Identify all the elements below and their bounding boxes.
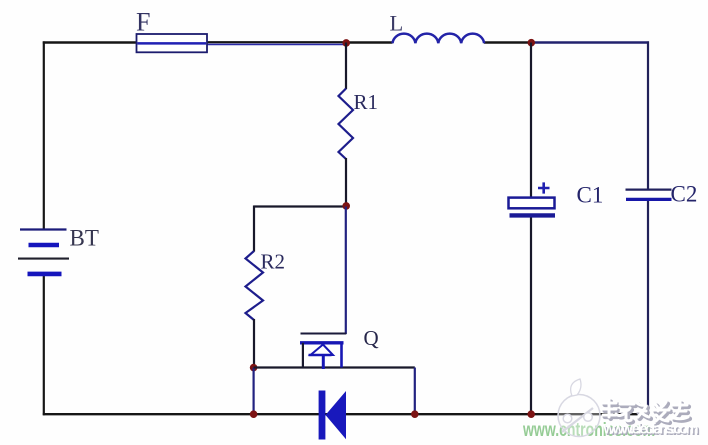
battery BT plates <box>18 230 69 274</box>
wire source branch down (navy) <box>414 368 416 415</box>
wire top-left horizontal (battery+ to fuse) <box>43 41 137 43</box>
capacitor C1 top plate <box>509 198 555 209</box>
wire inductor to node B <box>484 41 532 43</box>
node A top (R1 branch) <box>342 39 350 47</box>
svg-text:www.elecfans.com: www.elecfans.com <box>603 422 699 438</box>
node B top (C1 branch) <box>528 39 536 47</box>
watermark <box>522 379 700 441</box>
wire C1 lower lead <box>530 218 532 415</box>
capacitor C1 bottom plate <box>510 213 556 217</box>
wire right side lower (C2 to bottom) <box>647 201 649 415</box>
fuse F body <box>137 34 208 52</box>
wire R1 bottom lead <box>345 158 347 207</box>
svg-text:L: L <box>390 11 404 36</box>
svg-text:C2: C2 <box>671 182 698 207</box>
capacitor C2 bottom plate <box>626 198 672 201</box>
diode D1 triangle <box>326 391 347 439</box>
wire R2 bottom lead <box>253 319 255 368</box>
capacitor C1 plus sign <box>538 182 550 193</box>
node F2 (source to bottom wire) <box>411 410 419 418</box>
wire node D down to bottom wire (navy) <box>253 368 255 415</box>
inductor L <box>393 34 485 44</box>
node G (C1 to bottom wire) <box>527 410 535 418</box>
svg-text:BT: BT <box>70 226 99 251</box>
capacitor C2 top plate <box>626 188 672 190</box>
wire drain (node C down to Q, navy) <box>345 207 347 335</box>
node C (R1/R2/gate-drain divider) <box>342 202 350 210</box>
wire bottom horizontal <box>43 413 649 415</box>
wire R1 top lead <box>345 43 347 90</box>
wire node B to top-right corner (navy) <box>531 41 649 43</box>
wire left side upper (to battery) <box>43 41 45 228</box>
transistor Q (MOSFET) <box>300 334 346 370</box>
wire R2 top lead <box>253 206 255 252</box>
node E (bottom wire left) <box>250 410 258 418</box>
wire fuse to node A <box>206 41 347 43</box>
svg-text:R1: R1 <box>354 90 379 114</box>
wire right side upper (to C2) <box>647 41 649 188</box>
wire gate/source bottom horizontal <box>254 366 415 368</box>
wire left side lower (battery to bottom) <box>43 275 45 416</box>
node D (R2 / gate wire) <box>250 364 258 372</box>
resistor R2 <box>246 251 264 320</box>
svg-text:R2: R2 <box>261 250 286 274</box>
wire C1 upper lead <box>530 43 532 199</box>
svg-text:F: F <box>136 8 150 37</box>
resistor R1 <box>339 89 354 160</box>
svg-text:C1: C1 <box>577 183 604 208</box>
diode D1 cathode bar <box>319 391 326 440</box>
svg-text:Q: Q <box>364 326 379 350</box>
wire node A to inductor <box>346 41 393 43</box>
wire node C to R2 (horizontal) <box>254 205 347 207</box>
